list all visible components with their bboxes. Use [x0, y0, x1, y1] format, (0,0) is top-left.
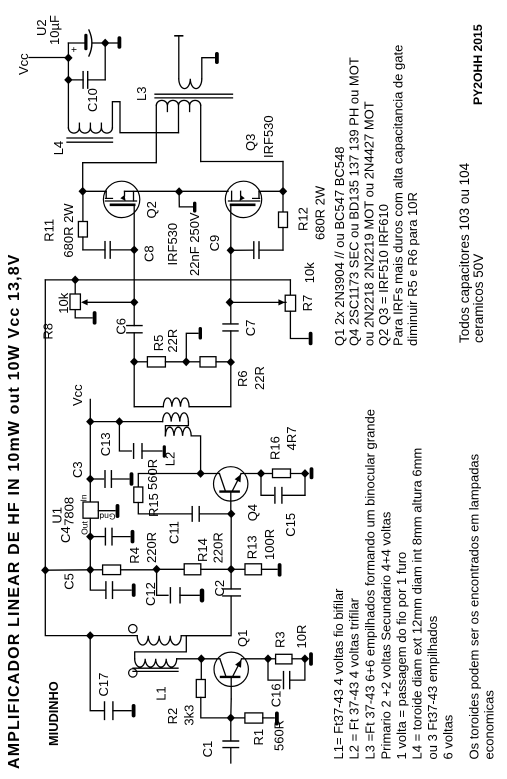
svg-text:ceramicos 50V: ceramicos 50V	[471, 254, 486, 343]
winding L2b	[119, 421, 162, 423]
svg-text:Q1: Q1	[235, 630, 250, 647]
junction node Q2 gate	[79, 187, 87, 196]
wire Gnd pin	[98, 510, 115, 512]
ground	[131, 530, 135, 544]
svg-text:10k: 10k	[302, 262, 317, 283]
wire series link	[135, 636, 187, 659]
wire primary left	[155, 105, 157, 162]
ground	[132, 583, 136, 597]
svg-text:560R: 560R	[145, 459, 160, 490]
ground mid	[186, 333, 198, 362]
svg-text:C7: C7	[243, 320, 258, 337]
junction	[41, 566, 49, 575]
wire	[186, 596, 231, 636]
svg-text:100R: 100R	[262, 529, 277, 560]
junction	[130, 357, 138, 366]
svg-text:R16: R16	[268, 436, 283, 460]
ground	[215, 52, 219, 64]
junction	[197, 654, 205, 663]
ground	[132, 704, 136, 718]
svg-text:L3: L3	[134, 87, 149, 101]
svg-text:IRF530: IRF530	[165, 223, 180, 266]
junction	[130, 298, 138, 307]
svg-text:economicas: economicas	[482, 690, 497, 760]
svg-text:L3 =Ft 37-43 6+6 empilhados: L3 =Ft 37-43 6+6 empilhados formando um …	[363, 409, 378, 760]
wire	[45, 570, 90, 635]
svg-text:L1: L1	[154, 686, 169, 700]
svg-text:In: In	[79, 494, 89, 501]
wire	[242, 658, 269, 660]
wire	[201, 161, 283, 163]
wire Q3 source	[230, 205, 232, 251]
wire	[104, 43, 106, 80]
svg-text:R12: R12	[296, 207, 311, 231]
wire	[90, 421, 119, 423]
phase dot	[129, 669, 137, 677]
wire	[282, 162, 284, 192]
junction	[64, 76, 72, 85]
ground	[105, 42, 117, 44]
terminal RF out	[175, 35, 183, 37]
svg-text:C1: C1	[200, 741, 215, 758]
wire	[112, 102, 178, 133]
wire	[241, 473, 261, 475]
svg-text:C9: C9	[207, 235, 222, 252]
junction	[182, 357, 190, 366]
wire drain row	[83, 190, 107, 192]
svg-text:3k3: 3k3	[182, 705, 197, 726]
junction	[227, 510, 235, 519]
junction	[86, 417, 94, 426]
svg-text:L1= Ft37-43 4 voltas fio bifi: L1= Ft37-43 4 voltas fio bifilar	[331, 588, 346, 760]
svg-text:220R: 220R	[211, 532, 226, 563]
ground	[275, 712, 279, 726]
svg-text:C11: C11	[167, 521, 182, 544]
wire	[89, 422, 91, 479]
wiper R7	[230, 301, 286, 303]
ground	[116, 504, 120, 518]
svg-text:680R 2W: 680R 2W	[61, 203, 76, 258]
wire	[89, 537, 91, 570]
svg-text:C6: C6	[114, 318, 129, 335]
svg-text:AMPLIFICADOR LINEAR DE HF IN 1: AMPLIFICADOR LINEAR DE HF IN 10mW out 10…	[6, 253, 23, 769]
svg-text:220R: 220R	[144, 532, 159, 563]
svg-text:diminuir R5 e R6 para 10R: diminuir R5 e R6 para 10R	[405, 192, 420, 346]
svg-text:MIUDINHO: MIUDINHO	[46, 681, 61, 746]
wire	[230, 514, 232, 569]
svg-text:C15: C15	[283, 513, 298, 537]
svg-text:ou 3 Ft37-43 empilhados: ou 3 Ft37-43 empilhados	[425, 615, 440, 759]
winding L2c	[165, 427, 191, 436]
wiper R8	[84, 301, 134, 303]
svg-text:560R: 560R	[272, 720, 287, 751]
wire	[44, 280, 46, 570]
wire	[177, 658, 202, 660]
wire	[230, 362, 232, 407]
junction	[227, 565, 235, 574]
svg-text:R1: R1	[251, 729, 266, 746]
svg-text:L2 = Ft 37-43 4 voltas trifila: L2 = Ft 37-43 4 voltas trifilar	[347, 597, 362, 759]
svg-text:Q4 2SC1173 SEC ou BD135 137 13: Q4 2SC1173 SEC ou BD135 137 139 PH ou MO…	[347, 57, 362, 346]
svg-text:Os toroides podem ser os encon: Os toroides podem ser os encontrados em …	[467, 453, 482, 759]
svg-text:R14: R14	[195, 538, 210, 562]
junction	[301, 654, 309, 663]
ground	[310, 467, 314, 479]
svg-text:Vcc: Vcc	[16, 53, 31, 75]
svg-text:C5: C5	[61, 573, 76, 590]
wire	[133, 250, 135, 302]
svg-text:Q2: Q2	[144, 201, 159, 218]
phase dot	[129, 625, 137, 633]
svg-text:R3: R3	[273, 631, 288, 648]
wire	[68, 42, 84, 44]
wire	[201, 473, 220, 475]
winding L1b	[135, 659, 177, 667]
wire	[201, 658, 220, 660]
junction	[115, 417, 123, 426]
junction	[64, 54, 72, 63]
junction	[152, 565, 160, 574]
svg-text:R6: R6	[235, 370, 250, 387]
svg-text:C8: C8	[141, 245, 156, 262]
wire output lead	[178, 36, 180, 79]
junction	[175, 187, 183, 196]
svg-text:10µF: 10µF	[47, 15, 62, 45]
junction	[226, 298, 234, 307]
junction node Q3 gate	[279, 187, 287, 196]
svg-text:Gnd: Gnd	[99, 512, 115, 522]
wire	[92, 42, 105, 44]
winding L1a	[90, 635, 137, 637]
svg-text:Q2 Q3 = IRF510 IRF610: Q2 Q3 = IRF510 IRF610	[376, 204, 391, 346]
svg-text:Q4: Q4	[245, 504, 260, 521]
svg-text:C3: C3	[70, 461, 85, 478]
svg-text:Vcc: Vcc	[70, 384, 85, 406]
wire	[82, 163, 84, 192]
svg-text:10k: 10k	[56, 292, 71, 313]
ground	[200, 589, 205, 603]
svg-text:Para IRFs mais duros com alta: Para IRFs mais duros com alta capacitanc…	[391, 45, 406, 346]
svg-text:Out: Out	[80, 520, 90, 534]
svg-text:C16: C16	[268, 683, 283, 707]
junction	[86, 475, 94, 484]
ground	[130, 472, 134, 486]
junction	[130, 246, 138, 255]
wire	[202, 58, 215, 79]
svg-text:680R 2W: 680R 2W	[312, 185, 327, 240]
ground	[278, 563, 282, 577]
junction	[227, 246, 235, 255]
svg-text:+: +	[70, 47, 81, 53]
wire	[230, 250, 232, 302]
junction	[196, 469, 204, 478]
ground	[309, 652, 313, 666]
svg-text:R7: R7	[300, 295, 315, 312]
winding L2a	[134, 406, 163, 408]
svg-text:6 voltas: 6 voltas	[441, 714, 456, 759]
svg-text:L4: L4	[51, 141, 66, 155]
ground R7	[290, 311, 308, 338]
svg-text:R4: R4	[127, 547, 142, 564]
svg-text:C4: C4	[58, 526, 73, 543]
svg-text:1 volta = passagem do fio por: 1 volta = passagem do fio por 1 furo	[394, 552, 409, 760]
svg-text:10R: 10R	[294, 625, 309, 649]
wire center tap	[178, 105, 180, 132]
junction	[86, 532, 94, 541]
wire	[83, 162, 156, 164]
junction	[227, 358, 235, 367]
ground stub mid	[179, 192, 193, 207]
junction	[101, 39, 109, 48]
junction	[86, 631, 94, 640]
wire RF in	[230, 748, 232, 763]
svg-text:L4 = toroide diam ext 12mm dia: L4 = toroide diam ext 12mm diam int 8mm …	[410, 448, 425, 760]
svg-text:ou 2N2218 2N2219 MOT ou 2N4427: ou 2N2218 2N2219 MOT ou 2N4427 MOT	[362, 101, 377, 346]
junction	[257, 469, 265, 478]
wire	[67, 43, 69, 128]
svg-text:R2: R2	[165, 708, 180, 725]
wire base	[230, 677, 232, 699]
wire	[45, 569, 90, 571]
svg-text:22nF 250V: 22nF 250V	[187, 212, 202, 276]
svg-text:C12: C12	[143, 582, 158, 606]
wire bias rail	[45, 279, 290, 281]
svg-text:Todos capacitores 103 ou 104: Todos capacitores 103 ou 104	[457, 162, 472, 343]
wire	[133, 362, 135, 407]
svg-text:7808: 7808	[61, 497, 76, 526]
svg-text:C17: C17	[96, 673, 111, 697]
junction	[301, 469, 309, 478]
wire Q2 source	[133, 205, 135, 250]
svg-text:22R: 22R	[165, 329, 180, 353]
junction	[86, 565, 94, 574]
wire	[191, 436, 200, 474]
svg-text:R5: R5	[151, 335, 166, 352]
svg-text:PY2OHH 2015: PY2OHH 2015	[471, 24, 485, 105]
wire base	[230, 492, 232, 514]
junction	[227, 714, 235, 723]
svg-text:4R7: 4R7	[284, 427, 299, 451]
svg-text:22R: 22R	[252, 366, 267, 390]
junction	[71, 276, 79, 285]
ground	[163, 445, 166, 458]
ground R8	[75, 310, 92, 318]
wire primary right	[200, 105, 202, 161]
svg-text:R11: R11	[41, 219, 56, 242]
core	[133, 667, 178, 669]
svg-text:C10: C10	[85, 88, 100, 112]
svg-text:R13: R13	[245, 535, 260, 559]
svg-text:Q1 2x 2N3904 // ou BC547 BC548: Q1 2x 2N3904 // ou BC547 BC548	[332, 147, 347, 346]
svg-text:Q3: Q3	[243, 134, 258, 151]
svg-text:R8: R8	[40, 323, 55, 340]
wire series link	[165, 422, 188, 436]
svg-text:C13: C13	[98, 432, 113, 456]
svg-text:Primario 2 +2 voltas Secundari: Primario 2 +2 voltas Secundario 4+4 volt…	[379, 511, 394, 759]
svg-text:IRF530: IRF530	[261, 115, 276, 158]
junction	[264, 654, 272, 663]
svg-text:C2: C2	[212, 580, 227, 597]
wire Out pin	[89, 518, 91, 536]
